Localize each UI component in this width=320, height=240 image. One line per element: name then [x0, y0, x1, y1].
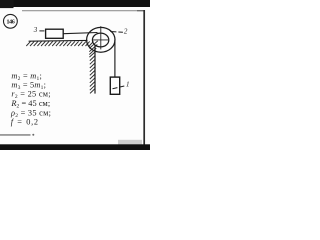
pulley axle cross vertical	[100, 26, 102, 49]
thin gray rule under top bar	[22, 10, 145, 12]
period dot after bottom-left rule	[32, 134, 34, 136]
darker right end of top rule	[137, 10, 145, 12]
pulley 2 inner step	[92, 33, 108, 47]
table right edge wall line	[94, 45, 96, 94]
bottom black bar	[0, 144, 150, 150]
gray patch above bottom bar right	[118, 140, 142, 145]
dashes pointer to label 2	[110, 31, 123, 34]
table hatching under surface	[26, 41, 93, 46]
data text block	[10, 72, 51, 127]
pulley axle cross horizontal	[93, 39, 109, 41]
rope from block to pulley	[64, 33, 98, 34]
weight 1	[110, 77, 119, 94]
wall hatching left of table edge	[89, 41, 98, 94]
top black bar	[0, 0, 150, 7]
rope from pulley down to weight	[114, 40, 116, 78]
block 3	[46, 29, 64, 38]
svg-text:1: 1	[126, 81, 130, 89]
table surface line	[29, 39, 88, 42]
dash pointer to block 3	[39, 30, 44, 32]
dashes pointer to label 1	[113, 86, 125, 89]
page background	[0, 0, 150, 150]
svg-text:3: 3	[33, 26, 38, 34]
problem number circle	[3, 14, 17, 28]
top bar thicker left end	[0, 0, 14, 8]
right frame border	[143, 10, 145, 145]
bottom-left gray rule	[0, 134, 31, 136]
svg-text:146: 146	[6, 19, 15, 26]
svg-text:2: 2	[124, 28, 128, 36]
pulley 2 outer rim	[87, 27, 115, 52]
